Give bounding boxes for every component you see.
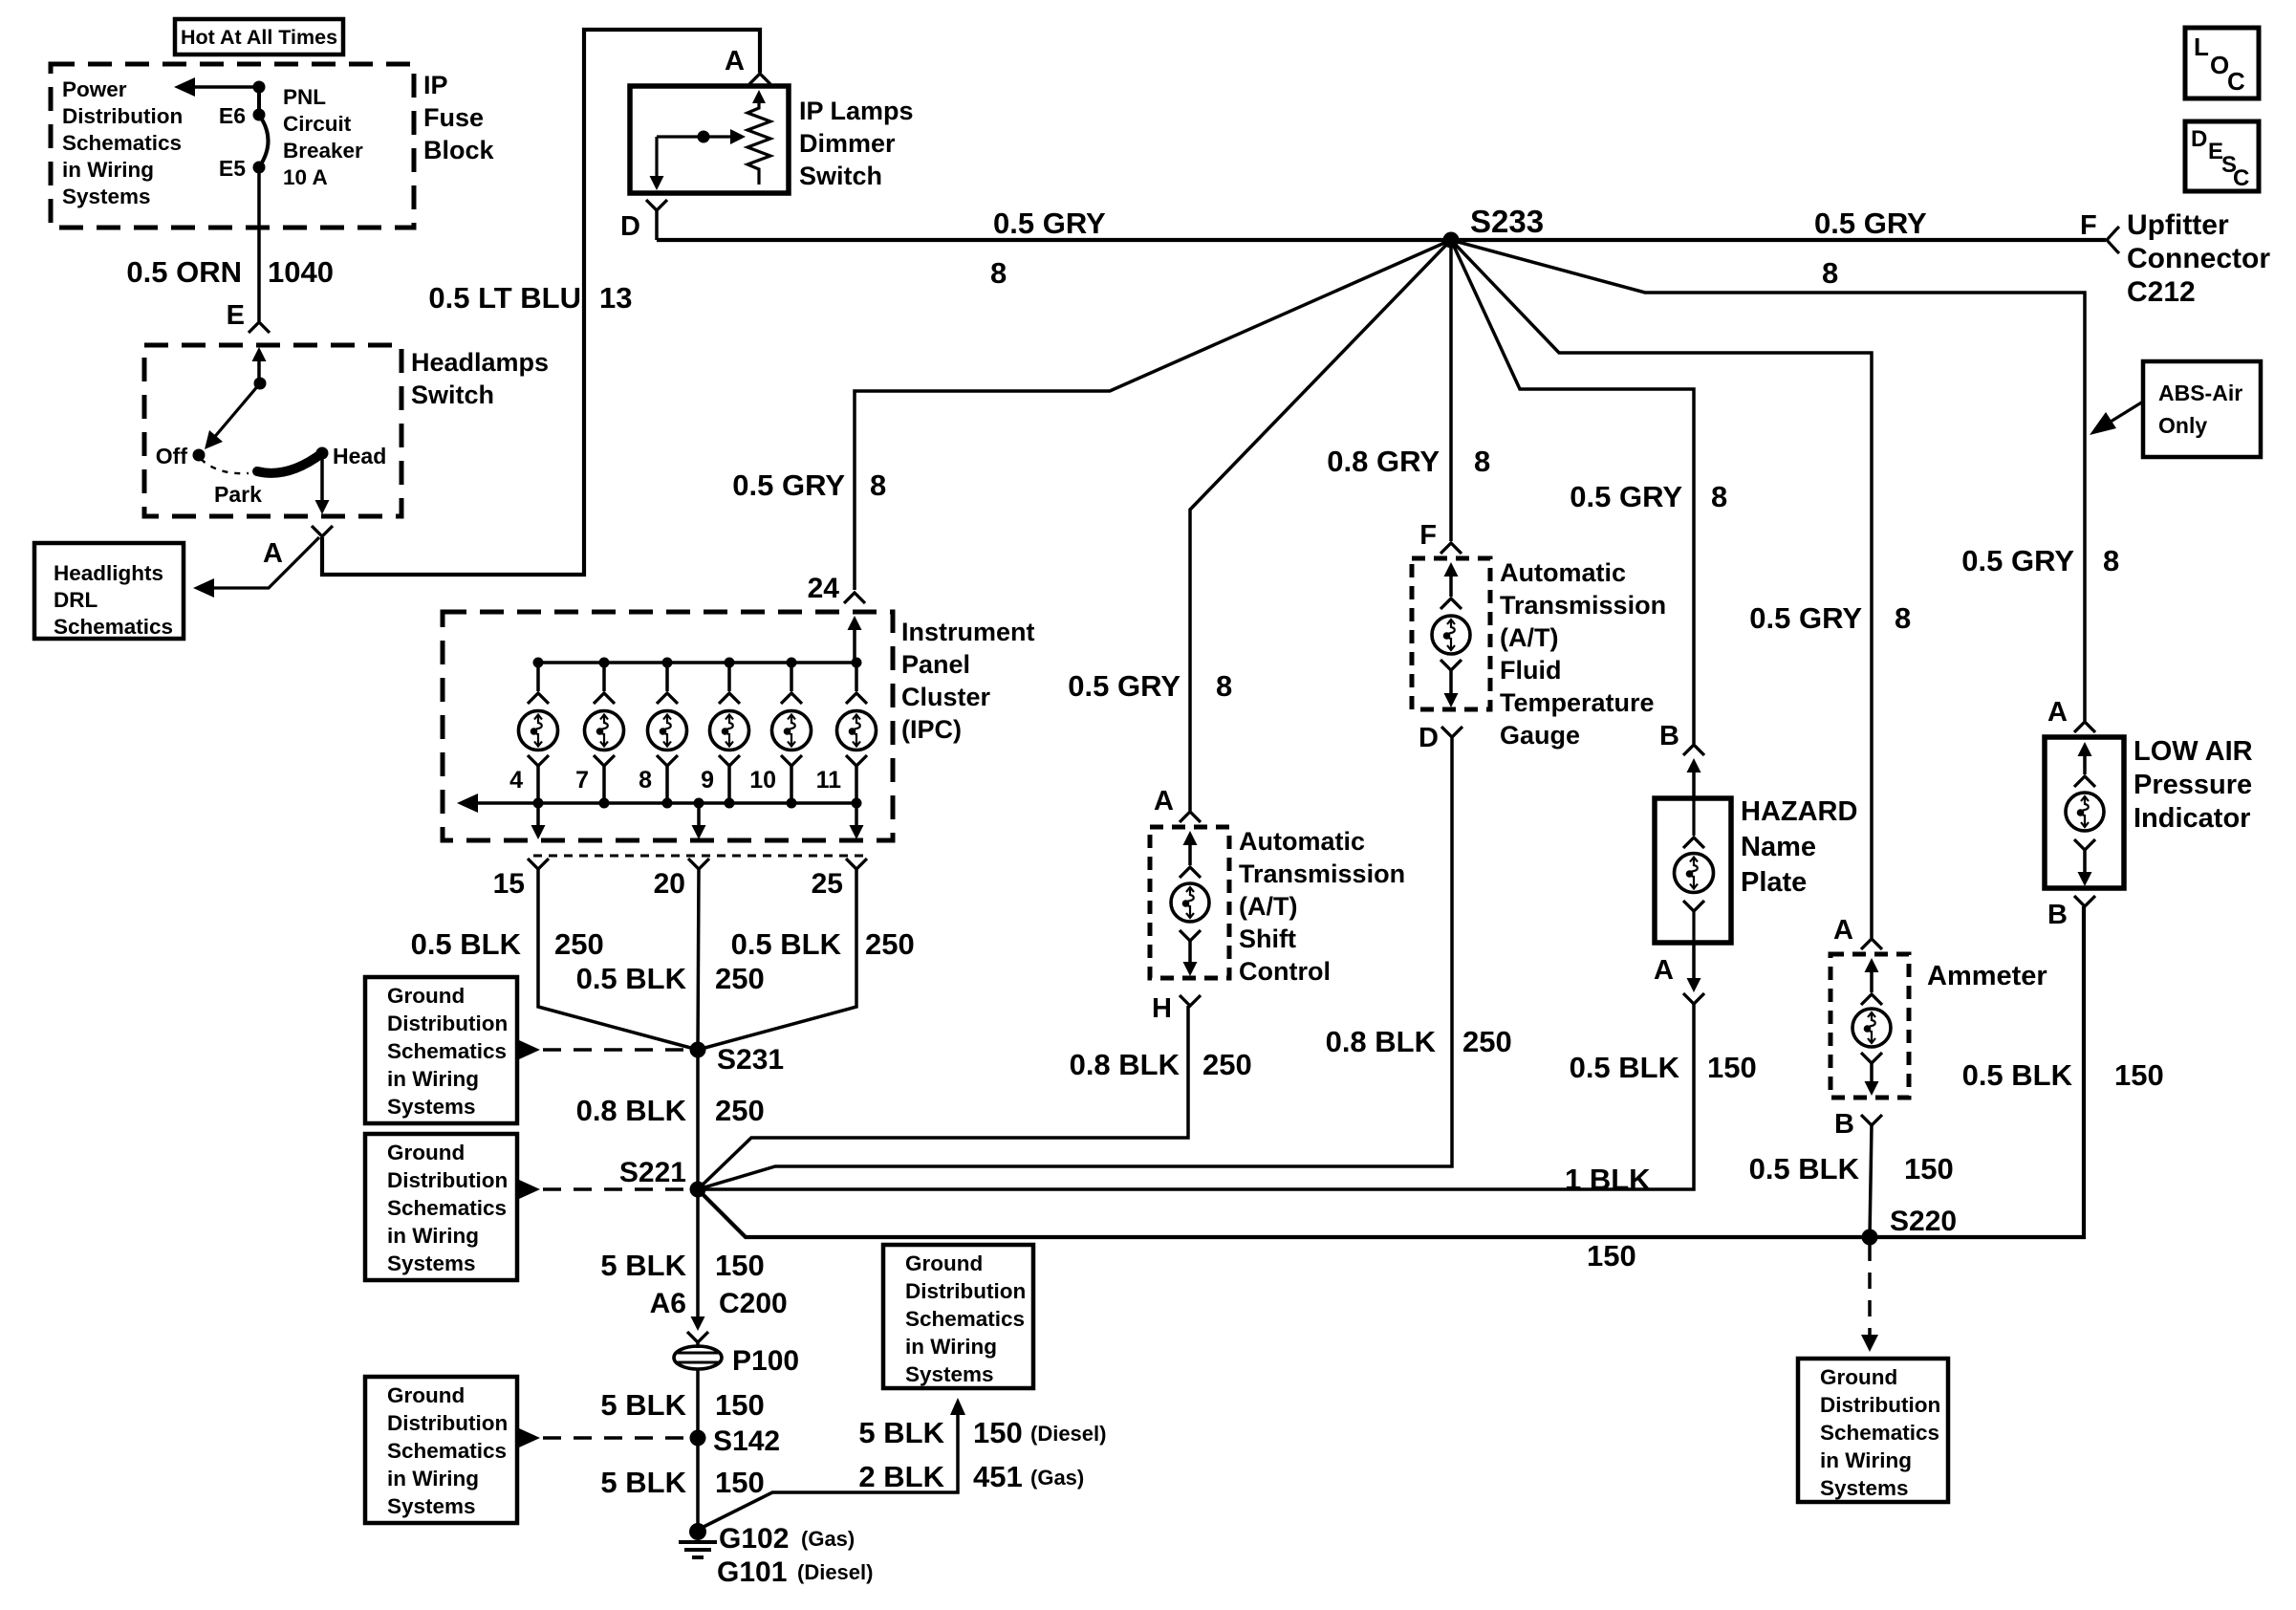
wire 0.5 GRY 8: dimmer D to S233 to upfitter F	[655, 210, 659, 240]
IPC connector boundary dashed line	[533, 855, 867, 858]
IPC illumination lamp 2	[602, 663, 606, 691]
IPC dashed outline	[443, 612, 893, 840]
node: bottom bus junction 1	[533, 798, 544, 809]
svg-text:Ground: Ground	[387, 1141, 465, 1164]
splice S220	[1862, 1229, 1878, 1246]
svg-text:8: 8	[1711, 480, 1727, 513]
IPC illumination lamp 1	[536, 663, 540, 691]
svg-text:C200: C200	[719, 1288, 788, 1319]
svg-text:A6: A6	[650, 1288, 686, 1319]
svg-text:Temperature: Temperature	[1500, 688, 1655, 717]
svg-text:Distribution: Distribution	[905, 1279, 1026, 1303]
svg-text:Ground: Ground	[387, 984, 465, 1008]
A/T Shift Control dashed outline	[1150, 827, 1229, 978]
svg-text:11: 11	[816, 767, 842, 794]
svg-text:Distribution: Distribution	[387, 1168, 508, 1192]
svg-text:Systems: Systems	[387, 1494, 476, 1518]
svg-text:Ground: Ground	[1820, 1365, 1897, 1389]
connector 24 male arrow into IPC	[848, 616, 862, 630]
svg-text:E6: E6	[219, 103, 246, 128]
svg-text:C: C	[2227, 67, 2245, 96]
svg-text:0.8 BLK: 0.8 BLK	[576, 1094, 687, 1127]
node: top bus junction 4	[725, 658, 735, 668]
svg-text:Upfitter: Upfitter	[2127, 209, 2229, 241]
svg-text:A: A	[1833, 915, 1853, 946]
ABS-Air Only note box	[2143, 361, 2261, 457]
svg-text:13: 13	[599, 281, 632, 315]
wire 2 BLK 451 / 5 BLK 150: G102 branch to ground distribution	[702, 1415, 958, 1528]
wire 0.5 GRY 8: S233 to hazard name plate B	[1451, 240, 1694, 744]
IPC illumination lamp 5	[790, 663, 793, 691]
svg-text:Headlights: Headlights	[54, 561, 163, 585]
node: top bus junction 1	[533, 658, 544, 668]
svg-text:0.5 GRY: 0.5 GRY	[1068, 669, 1180, 703]
low air lamp	[2078, 742, 2092, 756]
svg-text:5 BLK: 5 BLK	[600, 1466, 686, 1499]
connector A female (shift)	[1180, 812, 1201, 822]
svg-text:250: 250	[865, 927, 915, 961]
ground distribution reference arrow to S221	[519, 1180, 540, 1199]
svg-text:Only: Only	[2158, 413, 2207, 438]
connector A female (low air)	[2074, 722, 2095, 732]
svg-text:Head: Head	[333, 444, 386, 468]
svg-text:0.5 GRY: 0.5 GRY	[732, 468, 845, 502]
connector A female at dimmer	[749, 74, 770, 84]
svg-text:S220: S220	[1890, 1206, 1957, 1237]
svg-text:ABS-Air: ABS-Air	[2158, 381, 2242, 405]
IPC top bus	[538, 661, 856, 664]
svg-text:Ground: Ground	[387, 1383, 465, 1407]
svg-text:(IPC): (IPC)	[901, 715, 962, 744]
node: switch common	[254, 378, 267, 390]
wire 0.5 GRY 8: S233 to A/T shift control A	[1190, 240, 1451, 811]
wire: Head contact down to connector A	[320, 453, 324, 501]
svg-text:C212: C212	[2127, 276, 2196, 308]
svg-text:E: E	[227, 300, 245, 331]
svg-text:250: 250	[1462, 1025, 1512, 1058]
svg-text:F: F	[1419, 520, 1437, 551]
svg-text:Circuit: Circuit	[283, 112, 352, 136]
connector E male arrow into headlamps switch	[252, 347, 267, 361]
svg-text:in Wiring: in Wiring	[905, 1335, 997, 1359]
ground distribution reference dashed drop from S220	[1868, 1245, 1872, 1335]
svg-text:5 BLK: 5 BLK	[858, 1416, 944, 1449]
svg-text:Fluid: Fluid	[1500, 656, 1561, 685]
svg-text:0.5 GRY: 0.5 GRY	[1814, 207, 1927, 240]
svg-text:15: 15	[493, 868, 525, 900]
IPC illumination lamp 6	[855, 663, 858, 691]
wire 0.5 BLK 150: S221 to hazard name plate A	[705, 1004, 1694, 1189]
circuit breaker PNL 10A (E6-E5 with arc)	[257, 87, 261, 115]
svg-text:H: H	[1152, 993, 1172, 1024]
svg-text:150: 150	[715, 1466, 765, 1499]
svg-text:L: L	[2194, 33, 2209, 61]
wire: 0.5 ORN 1040 from breaker E5 to headlamps switch E	[257, 167, 261, 321]
svg-text:B: B	[1834, 1109, 1854, 1140]
svg-text:Automatic: Automatic	[1500, 558, 1626, 587]
svg-text:Pressure: Pressure	[2134, 770, 2252, 800]
svg-text:Instrument: Instrument	[901, 618, 1035, 646]
svg-text:(Gas): (Gas)	[801, 1527, 855, 1551]
wire 5 BLK 150: S221 down to C200	[696, 1197, 700, 1317]
svg-text:P100: P100	[732, 1345, 799, 1377]
wire 0.5 GRY 8: S233 to IPC pin 24	[855, 240, 1451, 590]
ground distribution reference arrow to S231	[519, 1040, 540, 1059]
svg-text:0.8 GRY: 0.8 GRY	[1327, 445, 1440, 478]
svg-text:0.5 BLK: 0.5 BLK	[411, 927, 522, 961]
svg-text:A: A	[725, 46, 745, 76]
svg-text:PNL: PNL	[283, 85, 326, 109]
node: top bus junction 5	[787, 658, 797, 668]
connector F female (fluid)	[1440, 543, 1462, 554]
connector E female	[249, 322, 270, 333]
svg-text:G102: G102	[719, 1523, 789, 1555]
dimmer rheostat resistor	[752, 90, 766, 103]
wire 0.8 GRY 8: S233 down to A/T fluid gauge F	[1449, 240, 1453, 541]
svg-text:Systems: Systems	[62, 185, 151, 208]
LOW AIR Pressure Indicator box	[2045, 737, 2124, 888]
Ground Distribution Schematics box (S220)	[1798, 1359, 1948, 1502]
svg-text:0.5 BLK: 0.5 BLK	[1570, 1051, 1680, 1084]
connector A male+female (hazard)	[1692, 943, 1696, 979]
svg-text:Schematics: Schematics	[387, 1196, 507, 1220]
svg-text:S142: S142	[713, 1425, 780, 1457]
connector 15 female	[528, 859, 549, 869]
svg-text:Dimmer: Dimmer	[799, 129, 896, 158]
svg-text:10 A: 10 A	[283, 165, 328, 189]
Ammeter dashed outline	[1830, 954, 1909, 1098]
svg-text:Plate: Plate	[1741, 867, 1807, 898]
svg-text:150: 150	[1587, 1239, 1636, 1273]
node: bottom bus junction 6	[852, 798, 862, 809]
wire 5 BLK 150: P100 to S142	[696, 1369, 700, 1430]
svg-text:S221: S221	[619, 1157, 686, 1188]
HAZARD Name Plate box	[1655, 798, 1731, 943]
splice S231	[690, 1042, 706, 1058]
svg-text:(Gas): (Gas)	[1030, 1466, 1084, 1490]
node Off	[193, 449, 206, 462]
connector 24 female	[844, 593, 865, 603]
wire 5 BLK 150: S142 to G102	[696, 1446, 700, 1526]
svg-text:Panel: Panel	[901, 650, 970, 679]
connector D female below dimmer	[646, 200, 667, 210]
node: bottom bus junction 5	[787, 798, 797, 809]
dashed travel arc Off-Park	[201, 459, 249, 473]
connector B female+male (hazard)	[1683, 745, 1704, 755]
svg-text:A: A	[1154, 786, 1174, 816]
connector 25 female	[846, 859, 867, 869]
svg-text:Schematics: Schematics	[905, 1307, 1025, 1331]
svg-text:B: B	[1659, 721, 1679, 751]
connector A female (ammeter)	[1861, 939, 1882, 949]
svg-text:Off: Off	[156, 444, 188, 468]
svg-text:Ammeter: Ammeter	[1927, 961, 2047, 991]
svg-text:Switch: Switch	[411, 381, 494, 409]
svg-text:Distribution: Distribution	[387, 1012, 508, 1035]
wire 0.5 BLK 250: pin 25 to S231	[698, 869, 856, 1050]
ground distribution reference arrow to S142	[519, 1428, 540, 1447]
svg-text:C: C	[2233, 165, 2249, 191]
svg-text:Indicator: Indicator	[2134, 803, 2250, 834]
switch wiper thick arc Head-Park	[257, 453, 322, 473]
svg-text:E5: E5	[219, 156, 246, 181]
wire 0.8 BLK 250: S221 to A/T fluid gauge D	[698, 737, 1452, 1189]
svg-text:5 BLK: 5 BLK	[600, 1249, 686, 1282]
svg-text:Distribution: Distribution	[62, 104, 183, 128]
node Head	[316, 447, 329, 460]
dimmer wiper arm with node	[657, 135, 732, 138]
svg-text:150: 150	[1707, 1051, 1757, 1084]
wire 0.8 BLK 250: S221 to A/T shift control H	[698, 1006, 1188, 1189]
connector H female (shift)	[1180, 995, 1201, 1006]
svg-text:150: 150	[2114, 1058, 2164, 1092]
IP Fuse Block dashed outline	[51, 64, 414, 228]
svg-text:in Wiring: in Wiring	[387, 1467, 479, 1490]
LOC legend box	[2185, 28, 2259, 98]
svg-text:0.5 BLK: 0.5 BLK	[731, 927, 842, 961]
ground G102/G101	[689, 1523, 706, 1540]
connector C200 inline	[691, 1316, 705, 1331]
node: top bus junction 2	[599, 658, 610, 668]
svg-text:Breaker: Breaker	[283, 139, 363, 163]
svg-text:0.5 LT BLU: 0.5 LT BLU	[428, 281, 581, 315]
svg-text:in Wiring: in Wiring	[387, 1224, 479, 1248]
svg-text:Cluster: Cluster	[901, 683, 991, 711]
svg-text:Schematics: Schematics	[1820, 1421, 1939, 1445]
svg-text:250: 250	[1202, 1048, 1252, 1081]
IP Lamps Dimmer Switch box	[630, 86, 789, 193]
svg-text:Switch: Switch	[799, 162, 882, 190]
svg-text:9: 9	[701, 767, 714, 794]
svg-text:Schematics: Schematics	[54, 615, 173, 639]
svg-text:8: 8	[870, 468, 886, 502]
svg-text:D: D	[1419, 723, 1439, 753]
svg-text:Distribution: Distribution	[387, 1411, 508, 1435]
Ground Distribution Schematics box (diesel/gas)	[883, 1245, 1033, 1388]
svg-text:0.8 BLK: 0.8 BLK	[1326, 1025, 1437, 1058]
connector D female (fluid)	[1441, 727, 1462, 737]
arrow from ABS-Air note to low air wire	[2111, 402, 2143, 422]
svg-text:Automatic: Automatic	[1239, 827, 1365, 856]
svg-text:0.5 ORN: 0.5 ORN	[126, 255, 242, 289]
svg-text:1040: 1040	[268, 255, 334, 289]
svg-text:Name: Name	[1741, 832, 1816, 862]
svg-text:8: 8	[2103, 544, 2119, 577]
svg-text:Hot At All Times: Hot At All Times	[181, 26, 337, 49]
svg-text:in Wiring: in Wiring	[62, 158, 154, 182]
wire: feed to Power Distribution (arrow left)	[187, 85, 259, 89]
junction box: Hot At All Times label box	[175, 19, 343, 54]
svg-text:Gauge: Gauge	[1500, 721, 1580, 750]
Headlights DRL Schematics box	[34, 543, 184, 639]
Headlamps Switch dashed outline	[144, 345, 401, 516]
svg-text:Shift: Shift	[1239, 925, 1296, 953]
svg-text:8: 8	[990, 256, 1007, 290]
wire: IPC ground pin 20 exit	[697, 803, 701, 826]
svg-text:7: 7	[575, 767, 589, 794]
svg-text:0.5 GRY: 0.5 GRY	[993, 207, 1106, 240]
svg-text:451: 451	[973, 1460, 1023, 1493]
wire 0.5 GRY 8: S233 to ammeter A	[1451, 240, 1872, 938]
svg-text:20: 20	[654, 868, 685, 900]
node: bottom bus junction 7	[694, 798, 704, 809]
svg-text:Schematics: Schematics	[387, 1439, 507, 1463]
svg-text:250: 250	[554, 927, 604, 961]
fluid gauge lamp	[1444, 562, 1459, 577]
svg-text:150: 150	[1904, 1152, 1954, 1186]
svg-text:150: 150	[715, 1388, 765, 1422]
connector B female (ammeter)	[1861, 1115, 1882, 1125]
svg-text:D: D	[620, 211, 640, 242]
svg-text:Schematics: Schematics	[387, 1039, 507, 1063]
svg-text:A: A	[1654, 955, 1674, 986]
svg-text:Transmission: Transmission	[1500, 591, 1666, 620]
svg-text:8: 8	[1895, 601, 1911, 635]
svg-text:LOW AIR: LOW AIR	[2134, 736, 2253, 767]
node: bottom bus junction 4	[725, 798, 735, 809]
ammeter lamp	[1865, 958, 1879, 972]
svg-text:S233: S233	[1470, 204, 1544, 239]
svg-text:IP Lamps: IP Lamps	[799, 97, 914, 125]
svg-text:in Wiring: in Wiring	[387, 1067, 479, 1091]
node: bottom bus junction 2	[599, 798, 610, 809]
wire: A to Headlights DRL arrow	[204, 537, 319, 588]
grommet P100	[674, 1346, 722, 1369]
svg-text:Systems: Systems	[1820, 1476, 1909, 1500]
Ground Distribution Schematics box (S142)	[365, 1377, 517, 1523]
svg-text:8: 8	[1822, 256, 1838, 290]
connector B female (low air)	[2074, 896, 2095, 906]
svg-text:A: A	[263, 538, 283, 569]
svg-text:Distribution: Distribution	[1820, 1393, 1940, 1417]
node: bottom bus junction 3	[662, 798, 673, 809]
svg-text:Headlamps: Headlamps	[411, 348, 549, 377]
wire 0.5 LT BLU 13: headlamps A up-over to dimmer A	[322, 30, 760, 575]
svg-text:0.5 BLK: 0.5 BLK	[1962, 1058, 2073, 1092]
svg-text:4: 4	[509, 767, 523, 794]
svg-text:Systems: Systems	[387, 1251, 476, 1275]
svg-text:Schematics: Schematics	[62, 131, 182, 155]
IPC bottom bus with arrow to left	[470, 801, 856, 805]
svg-text:Connector: Connector	[2127, 243, 2270, 274]
svg-text:Block: Block	[423, 136, 495, 164]
svg-text:Park: Park	[214, 482, 262, 507]
wire: IPC ground pin 15 exit	[536, 803, 540, 826]
wire to P100	[696, 1342, 700, 1348]
IPC illumination lamp 3	[665, 663, 669, 691]
DESC legend box	[2185, 121, 2259, 191]
svg-text:150: 150	[973, 1416, 1023, 1449]
svg-text:B: B	[2047, 900, 2068, 930]
svg-text:Ground: Ground	[905, 1251, 983, 1275]
svg-text:DRL: DRL	[54, 588, 97, 612]
svg-text:0.8 BLK: 0.8 BLK	[1070, 1048, 1180, 1081]
splice S233	[1443, 232, 1460, 249]
svg-text:G101: G101	[717, 1556, 787, 1588]
wire 0.5 BLK 250: pin 20 to S231	[698, 869, 699, 1050]
svg-text:1 BLK: 1 BLK	[1565, 1163, 1651, 1196]
svg-text:Fuse: Fuse	[423, 103, 484, 132]
svg-text:F: F	[2080, 210, 2097, 241]
svg-text:A: A	[2047, 697, 2068, 728]
connector A female below box	[312, 526, 333, 536]
svg-text:S231: S231	[717, 1044, 784, 1076]
svg-text:0.5 BLK: 0.5 BLK	[1749, 1152, 1860, 1186]
svg-text:10: 10	[749, 767, 776, 794]
svg-text:Systems: Systems	[387, 1095, 476, 1119]
Ground Distribution Schematics box (S231)	[365, 977, 517, 1123]
svg-text:Transmission: Transmission	[1239, 859, 1405, 888]
svg-text:0.5 BLK: 0.5 BLK	[576, 962, 687, 995]
svg-text:8: 8	[1216, 669, 1232, 703]
svg-text:250: 250	[715, 962, 765, 995]
wire 0.5 BLK 150: ammeter B to S220	[1870, 1125, 1872, 1237]
svg-text:in Wiring: in Wiring	[1820, 1448, 1912, 1472]
shift control lamp	[1183, 831, 1198, 845]
svg-text:Systems: Systems	[905, 1362, 994, 1386]
svg-text:0.5 GRY: 0.5 GRY	[1961, 544, 2074, 577]
node: top bus junction 6	[852, 658, 862, 668]
switch arm toward Off (arrow)	[212, 383, 260, 440]
wire 0.8 BLK 250: S231 to S221	[696, 1057, 700, 1182]
svg-text:0.5 GRY: 0.5 GRY	[1749, 601, 1862, 635]
hazard lamp	[1692, 798, 1695, 836]
connector F female (upfitter C212)	[2107, 227, 2119, 253]
svg-text:24: 24	[808, 573, 840, 604]
svg-text:0.5 GRY: 0.5 GRY	[1570, 480, 1682, 513]
svg-text:Control: Control	[1239, 957, 1331, 986]
svg-text:(A/T): (A/T)	[1500, 623, 1558, 652]
wire: IPC ground pin 25 exit	[855, 803, 858, 826]
splice S221	[690, 1182, 706, 1198]
IPC illumination lamp 4	[727, 663, 731, 691]
wire 1 BLK 150: S221 to S220 to low air B	[698, 906, 2084, 1237]
svg-text:8: 8	[639, 767, 652, 794]
svg-text:2 BLK: 2 BLK	[858, 1460, 944, 1493]
node: breaker feed junction	[253, 81, 266, 94]
splice S142	[690, 1430, 706, 1447]
svg-text:25: 25	[812, 868, 843, 900]
svg-text:(Diesel): (Diesel)	[1030, 1422, 1106, 1446]
svg-text:D: D	[2191, 126, 2207, 152]
wire 0.5 BLK 250: pin 15 to S231	[538, 869, 698, 1050]
svg-text:HAZARD: HAZARD	[1741, 796, 1857, 827]
A/T Fluid Temperature Gauge dashed outline	[1412, 558, 1490, 709]
node: top bus junction 3	[662, 658, 673, 668]
svg-text:Power: Power	[62, 77, 127, 101]
svg-text:8: 8	[1474, 445, 1490, 478]
wire 0.5 GRY 8: S233 to low air indicator A	[1451, 240, 2085, 721]
svg-text:IP: IP	[423, 71, 448, 99]
svg-text:5 BLK: 5 BLK	[600, 1388, 686, 1422]
svg-text:150: 150	[715, 1249, 765, 1282]
svg-text:(A/T): (A/T)	[1239, 892, 1297, 921]
svg-text:(Diesel): (Diesel)	[797, 1560, 873, 1584]
Ground Distribution Schematics box (S221)	[365, 1134, 517, 1280]
connector 20 female	[688, 859, 709, 869]
svg-text:250: 250	[715, 1094, 765, 1127]
